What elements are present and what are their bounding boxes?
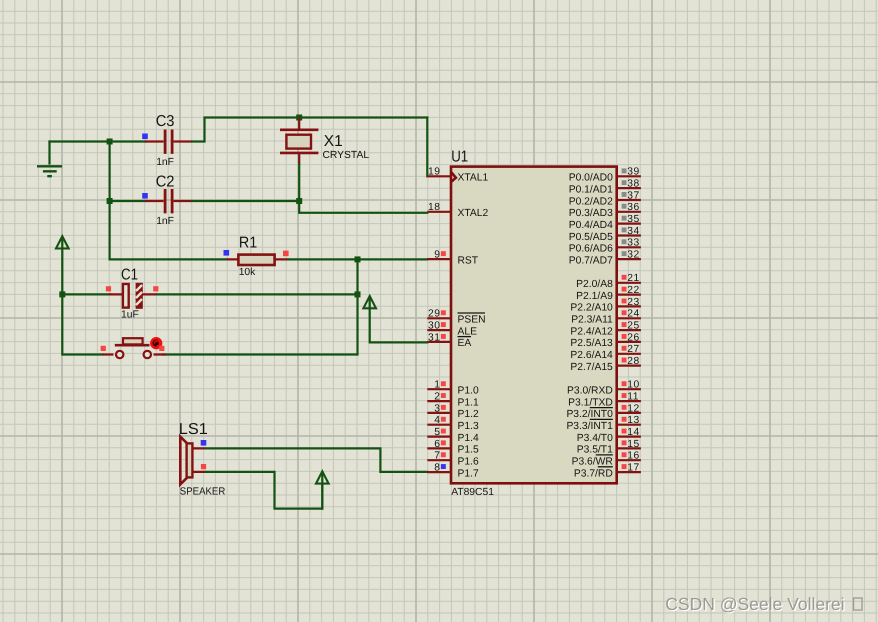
- svg-text:1nF: 1nF: [156, 216, 174, 227]
- wire C3 to top rail: [192, 118, 427, 142]
- pin 21 P2.0/A8: [576, 273, 641, 290]
- svg-text:P2.5/A13: P2.5/A13: [570, 338, 613, 349]
- svg-text:P1.4: P1.4: [458, 433, 479, 444]
- svg-text:24: 24: [627, 309, 639, 320]
- power VCC arrow 1: [56, 236, 103, 354]
- wire left column to R1: [110, 258, 227, 260]
- power VCC arrow 2 (EA): [363, 296, 427, 342]
- svg-text:P2.3/A11: P2.3/A11: [571, 315, 613, 326]
- svg-text:SPEAKER: SPEAKER: [180, 486, 226, 497]
- svg-text:P1.7: P1.7: [458, 468, 479, 479]
- pin 34 P0.5/AD5: [569, 226, 641, 243]
- pin 16 P3.6/WR: [572, 451, 641, 468]
- svg-text:P2.0/A8: P2.0/A8: [576, 279, 613, 290]
- svg-text:P3.1/TXD: P3.1/TXD: [568, 397, 613, 408]
- svg-text:P0.3/AD3: P0.3/AD3: [569, 208, 613, 219]
- watermark: [665, 594, 862, 615]
- pin 30 ALE: [427, 321, 477, 338]
- svg-text:29: 29: [428, 309, 440, 320]
- svg-text:P2.2/A10: P2.2/A10: [570, 303, 613, 314]
- svg-text:26: 26: [627, 332, 639, 343]
- svg-text:C1: C1: [121, 266, 138, 283]
- svg-text:P3.0/RXD: P3.0/RXD: [567, 386, 613, 397]
- pin 1 P1.0: [427, 380, 479, 397]
- svg-text:LS1: LS1: [179, 421, 208, 438]
- power VCC arrow 3 (speaker): [316, 471, 329, 508]
- svg-text:28: 28: [627, 356, 639, 367]
- svg-text:XTAL1: XTAL1: [458, 173, 489, 184]
- wire node to C2: [110, 200, 146, 202]
- wire speaker pin1 to P1.7: [206, 448, 427, 472]
- svg-text:30: 30: [428, 321, 440, 332]
- svg-text:P1.6: P1.6: [458, 457, 479, 468]
- node A junction: [107, 139, 113, 145]
- wire top rail down to XTAL1 pin: [426, 118, 428, 177]
- svg-text:C3: C3: [156, 113, 175, 130]
- svg-text:15: 15: [627, 439, 639, 450]
- pin 12 P3.2/INT0: [566, 403, 640, 420]
- svg-text:CSDN @Seele Vollerei: CSDN @Seele Vollerei: [665, 594, 844, 614]
- svg-text:18: 18: [428, 202, 440, 213]
- svg-text:PSEN: PSEN: [458, 315, 486, 326]
- svg-text:8: 8: [434, 462, 440, 473]
- pin 33 P0.6/AD6: [569, 238, 641, 255]
- svg-text:R1: R1: [239, 234, 258, 251]
- svg-text:36: 36: [627, 202, 639, 213]
- svg-text:X1: X1: [324, 133, 343, 150]
- wire node A down to R1 row: [108, 142, 110, 260]
- svg-text:12: 12: [627, 403, 639, 414]
- svg-text:23: 23: [627, 297, 639, 308]
- svg-text:31: 31: [428, 332, 440, 343]
- svg-text:P0.5/AD5: P0.5/AD5: [569, 232, 613, 243]
- pin 25 P2.4/A12: [570, 321, 640, 338]
- svg-text:11: 11: [627, 392, 639, 403]
- svg-text:P2.6/A14: P2.6/A14: [570, 350, 613, 361]
- svg-text:P3.2/INT0: P3.2/INT0: [566, 409, 613, 420]
- svg-text:13: 13: [627, 415, 639, 426]
- svg-text:P3.3/INT1: P3.3/INT1: [566, 421, 613, 432]
- wire speaker pin2 to power: [206, 472, 322, 509]
- pin 23 P2.2/A10: [570, 297, 640, 314]
- pin 14 P3.4/T0: [577, 427, 641, 444]
- svg-text:17: 17: [627, 462, 639, 473]
- svg-text:P1.0: P1.0: [458, 386, 479, 397]
- pin 29 PSEN: [427, 309, 485, 326]
- svg-text:33: 33: [627, 238, 639, 249]
- svg-text:EA: EA: [458, 338, 472, 349]
- svg-text:P1.5: P1.5: [458, 445, 479, 456]
- svg-text:32: 32: [627, 250, 639, 261]
- pin 22 P2.1/A9: [576, 285, 641, 302]
- svg-text:P2.4/A12: P2.4/A12: [570, 326, 613, 337]
- svg-text:27: 27: [627, 344, 639, 355]
- svg-text:5: 5: [434, 427, 440, 438]
- svg-text:P0.7/AD7: P0.7/AD7: [569, 255, 613, 266]
- pin 31 EA: [427, 332, 471, 349]
- node C1 right junction: [355, 291, 361, 297]
- resistor R1: [224, 234, 289, 278]
- svg-text:1nF: 1nF: [156, 157, 174, 168]
- pin 39 P0.0/AD0: [569, 167, 641, 184]
- pin 13 P3.3/INT1: [566, 415, 640, 432]
- svg-text:P1.1: P1.1: [458, 397, 479, 408]
- svg-text:6: 6: [434, 439, 440, 450]
- svg-text:4: 4: [434, 415, 440, 426]
- svg-text:RST: RST: [458, 255, 479, 266]
- wire node A to C3: [110, 140, 146, 142]
- pin 6 P1.5: [427, 439, 479, 456]
- svg-text:1uF: 1uF: [121, 309, 139, 320]
- svg-text:37: 37: [627, 190, 639, 201]
- svg-text:P3.6/WR: P3.6/WR: [572, 457, 613, 468]
- wire C2 junction on left column: [107, 198, 113, 204]
- svg-text:XTAL2: XTAL2: [458, 208, 489, 219]
- svg-text:P2.7/A15: P2.7/A15: [570, 362, 613, 373]
- wire node to C1: [62, 293, 110, 295]
- svg-text:P2.1/A9: P2.1/A9: [576, 291, 613, 302]
- svg-text:14: 14: [627, 427, 639, 438]
- pin 37 P0.2/AD2: [569, 190, 641, 207]
- pin 3 P1.2: [427, 403, 479, 420]
- speaker LS1: [179, 421, 226, 497]
- node C1 left junction: [59, 291, 65, 297]
- pin 38 P0.1/AD1: [569, 179, 641, 196]
- wire ground to node A: [50, 140, 110, 142]
- svg-text:P0.4/AD4: P0.4/AD4: [569, 220, 613, 231]
- pin 8 P1.7: [427, 462, 479, 479]
- svg-text:2: 2: [434, 392, 440, 403]
- svg-text:22: 22: [627, 285, 639, 296]
- capacitor C2: [142, 173, 192, 227]
- svg-text:39: 39: [627, 167, 639, 178]
- pin 15 P3.5/T1: [577, 439, 641, 456]
- svg-text:P0.1/AD1: P0.1/AD1: [569, 184, 613, 195]
- svg-text:P3.4/T0: P3.4/T0: [577, 433, 613, 444]
- pin 19 XTAL1: [427, 167, 488, 184]
- ground: [37, 142, 62, 177]
- svg-text:16: 16: [627, 451, 639, 462]
- pin 17 P3.7/RD: [574, 462, 641, 479]
- capacitor C3: [142, 113, 192, 168]
- node RST branch junction: [355, 256, 361, 262]
- pin 35 P0.4/AD4: [569, 214, 641, 231]
- capacitor C1 (1uF polarized): [106, 266, 158, 320]
- pin 4 P1.3: [427, 415, 479, 432]
- svg-text:3: 3: [434, 403, 440, 414]
- pin 11 P3.1/TXD: [568, 392, 641, 409]
- svg-text:P0.0/AD0: P0.0/AD0: [569, 173, 613, 184]
- svg-text:P0.6/AD6: P0.6/AD6: [569, 244, 613, 255]
- svg-text:35: 35: [627, 214, 639, 225]
- svg-text:P1.3: P1.3: [458, 421, 479, 432]
- pin 10 P3.0/RXD: [567, 380, 641, 397]
- wire C1 to right column: [157, 293, 358, 295]
- svg-text:AT89C51: AT89C51: [451, 487, 494, 498]
- pin 2 P1.1: [427, 392, 479, 409]
- wire RST branch down: [163, 259, 358, 354]
- svg-text:19: 19: [428, 167, 440, 178]
- svg-text:10: 10: [627, 380, 639, 391]
- wire C2 to crystal column: [192, 200, 299, 202]
- svg-text:7: 7: [434, 451, 440, 462]
- svg-text:25: 25: [627, 321, 639, 332]
- pin 26 P2.5/A13: [570, 332, 640, 349]
- pin 24 P2.3/A11: [571, 309, 641, 326]
- pin 18 XTAL2: [427, 202, 488, 219]
- svg-text:C2: C2: [156, 173, 175, 190]
- pin 36 P0.3/AD3: [569, 202, 641, 219]
- crystal X1: [280, 118, 369, 165]
- wire crystal to XTAL2 pin: [299, 165, 427, 213]
- pin 7 P1.6: [427, 451, 479, 468]
- IC U1 AT89C51 body: [451, 149, 617, 498]
- svg-text:9: 9: [434, 250, 440, 261]
- node crystal / C2 junction: [296, 198, 302, 204]
- svg-text:P0.2/AD2: P0.2/AD2: [569, 196, 613, 207]
- svg-text:U1: U1: [451, 149, 468, 166]
- svg-text:34: 34: [627, 226, 639, 237]
- pin 32 P0.7/AD7: [569, 250, 641, 267]
- svg-text:38: 38: [627, 179, 639, 190]
- svg-text:CRYSTAL: CRYSTAL: [323, 150, 370, 161]
- svg-text:10k: 10k: [239, 267, 256, 278]
- node top rail / crystal junction: [296, 115, 302, 121]
- pin 27 P2.6/A14: [570, 344, 640, 361]
- svg-text:21: 21: [627, 273, 639, 284]
- svg-text:P3.5/T1: P3.5/T1: [577, 445, 613, 456]
- svg-text:P3.7/RD: P3.7/RD: [574, 468, 613, 479]
- pin 5 P1.4: [427, 427, 479, 444]
- pin 28 P2.7/A15: [570, 356, 640, 373]
- svg-text:1: 1: [434, 380, 440, 391]
- wire R1 to RST pin: [289, 258, 428, 260]
- svg-text:P1.2: P1.2: [458, 409, 479, 420]
- pin 9 RST: [427, 250, 479, 267]
- svg-text:ALE: ALE: [458, 326, 478, 337]
- pushbutton: [101, 338, 166, 358]
